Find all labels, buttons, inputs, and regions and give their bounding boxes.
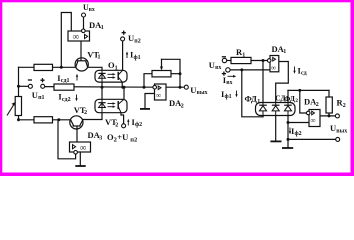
svg-text:3: 3 xyxy=(99,135,102,141)
svg-text:2: 2 xyxy=(115,122,118,128)
svg-text:2: 2 xyxy=(84,110,87,116)
svg-text:ф1: ф1 xyxy=(134,54,141,61)
svg-text:вых: вых xyxy=(197,90,208,96)
svg-text:1: 1 xyxy=(115,65,118,71)
svg-text:∞: ∞ xyxy=(271,64,276,72)
svg-text:вх: вх xyxy=(215,65,221,71)
svg-text:U: U xyxy=(330,123,336,133)
svg-text:1: 1 xyxy=(98,55,101,61)
svg-text:ФД: ФД xyxy=(284,94,296,103)
svg-text:2: 2 xyxy=(295,98,298,104)
svg-text:U: U xyxy=(190,85,196,95)
svg-text:сд: сд xyxy=(301,71,307,77)
svg-text:U: U xyxy=(128,33,134,43)
svg-text:сд1: сд1 xyxy=(61,78,70,84)
svg-text:сд2: сд2 xyxy=(62,97,71,103)
svg-text:вых: вых xyxy=(336,128,347,134)
svg-text:п1: п1 xyxy=(38,95,44,101)
svg-text:п2: п2 xyxy=(134,38,140,44)
svg-text:2: 2 xyxy=(181,104,184,110)
svg-text:ф2: ф2 xyxy=(295,130,302,137)
svg-text:2: 2 xyxy=(343,103,346,109)
svg-text:∞: ∞ xyxy=(311,117,316,125)
svg-text:∞: ∞ xyxy=(156,91,161,99)
svg-text:1: 1 xyxy=(242,52,245,58)
svg-text:U: U xyxy=(32,90,38,100)
svg-text:ф2: ф2 xyxy=(135,121,142,128)
svg-text:вх: вх xyxy=(226,80,232,86)
svg-text:п2: п2 xyxy=(130,137,137,144)
svg-text:1: 1 xyxy=(101,25,104,31)
svg-text:+U: +U xyxy=(117,132,128,142)
svg-text:1: 1 xyxy=(257,99,260,105)
svg-text:U: U xyxy=(209,60,215,70)
svg-text:∞: ∞ xyxy=(73,32,79,42)
svg-text:∞: ∞ xyxy=(80,142,86,152)
svg-text:1: 1 xyxy=(283,49,286,55)
svg-text:ФД: ФД xyxy=(245,94,258,104)
svg-text:ф1: ф1 xyxy=(225,93,232,100)
svg-text:вх: вх xyxy=(89,7,95,13)
svg-text:2: 2 xyxy=(316,102,319,108)
